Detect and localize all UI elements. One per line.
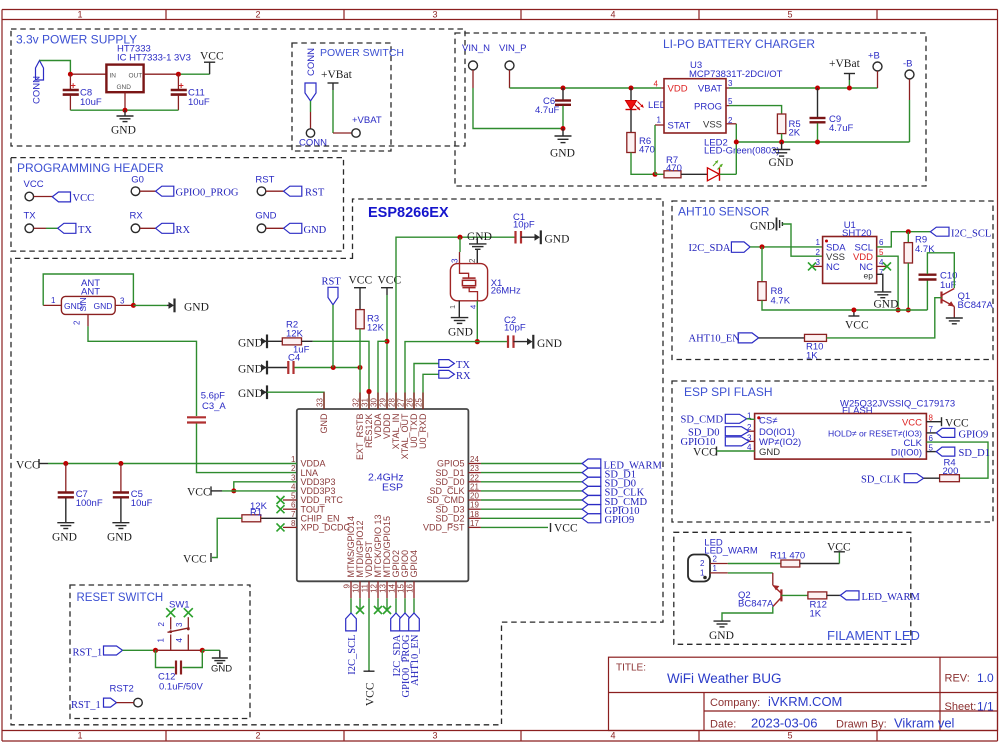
svg-text:13: 13: [379, 583, 388, 592]
ground symbol: [124, 110, 126, 116]
wire -B to gnd rail: [909, 79, 911, 100]
programming header block: [11, 158, 344, 252]
svg-text:RST: RST: [305, 188, 325, 199]
svg-text:U0_RXD: U0_RXD: [418, 413, 428, 449]
svg-text:4: 4: [654, 80, 659, 89]
svg-text:200: 200: [943, 466, 959, 477]
svg-text:GND: GND: [238, 364, 263, 376]
svg-text:DI(IO0): DI(IO0): [891, 447, 922, 458]
svg-text:STAT: STAT: [668, 121, 691, 132]
resistor R7 470: [664, 171, 681, 178]
ground symbol (C7): [57, 522, 74, 524]
net flag VCC: [52, 192, 70, 202]
capacitor C8 10uF: [69, 74, 71, 89]
pin circle CONN: [306, 129, 314, 137]
svg-text:3: 3: [728, 79, 733, 88]
wire SD_CLK to R4: [924, 477, 940, 479]
svg-text:WiFi Weather BUG: WiFi Weather BUG: [667, 671, 782, 686]
net flag I2C_SDA (down): [391, 613, 402, 631]
wire pin15 to GPIO0_PROG flag: [404, 598, 406, 613]
svg-text:12K: 12K: [286, 329, 304, 340]
svg-text:2: 2: [816, 248, 821, 257]
wire crystal pin4 to xtal_out: [476, 301, 478, 342]
wire pin19: [468, 508, 481, 510]
gnd side flag (C2): [527, 338, 533, 345]
svg-text:24: 24: [470, 455, 479, 464]
crystal X1 26MHz: [450, 264, 487, 301]
svg-text:POWER SWITCH: POWER SWITCH: [320, 47, 404, 59]
wire ep to gnd: [877, 274, 883, 292]
net flag AHT10_EN (down): [409, 613, 420, 631]
svg-text:ESP SPI FLASH: ESP SPI FLASH: [684, 385, 772, 399]
svg-text:Company:: Company:: [710, 697, 760, 709]
svg-text:GND: GND: [545, 234, 570, 246]
wire GND pin down: [124, 92, 126, 110]
node C9 top: [815, 86, 820, 91]
svg-text:VCC: VCC: [187, 487, 211, 499]
net flag I2C_SDA: [731, 242, 750, 252]
net flag GPIO10: [725, 437, 749, 446]
wire node to IN pin: [70, 73, 106, 75]
svg-text:VCC: VCC: [554, 523, 578, 535]
capacitor C3_A 5.6pF: [187, 416, 206, 418]
svg-text:4: 4: [469, 305, 478, 309]
wire branch to pin30: [378, 341, 387, 409]
wire R12 to LED_WARM flag: [827, 594, 841, 596]
capacitor C9 4.7uF: [817, 88, 819, 117]
no-connect U1 pin4: [877, 265, 887, 267]
wire pin25 to RX flag: [423, 374, 439, 409]
svg-text:10uF: 10uF: [80, 97, 102, 108]
svg-text:ESP: ESP: [382, 482, 403, 494]
right side pin wires and flags: [468, 459, 662, 535]
svg-text:1: 1: [77, 731, 82, 741]
power flag VCC (R1): [210, 553, 212, 562]
net flag TX: [58, 223, 76, 233]
resistor R10 1K: [805, 334, 827, 341]
svg-text:21: 21: [470, 482, 479, 491]
svg-text:3: 3: [816, 258, 821, 267]
svg-text:G0: G0: [131, 175, 144, 186]
svg-text:26: 26: [406, 398, 415, 407]
wire pin18: [468, 517, 481, 519]
wire I2C_SDA to pin1: [750, 246, 823, 248]
svg-text:CONN: CONN: [299, 138, 327, 149]
wire pin6 CLK to R4: [926, 442, 988, 478]
li-po battery charger block: [455, 33, 926, 186]
svg-text:32: 32: [352, 398, 361, 407]
resistor R12 1K: [808, 592, 827, 599]
svg-text:5: 5: [787, 10, 792, 20]
frame column ticks bottom: [165, 731, 167, 742]
node stat: [653, 172, 658, 177]
svg-text:VCC: VCC: [378, 275, 402, 287]
svg-text:6: 6: [879, 238, 884, 247]
no-connect pin6: [283, 508, 297, 510]
svg-text:7: 7: [291, 510, 296, 519]
right pin names: [423, 459, 465, 533]
svg-text:4: 4: [291, 482, 296, 491]
net flag RST: [284, 186, 302, 196]
svg-text:IN: IN: [110, 73, 117, 80]
wire R6 to stat rail: [631, 153, 655, 175]
svg-text:VCC: VCC: [693, 447, 717, 459]
wire crystal pin2 to gnd: [476, 249, 478, 263]
svg-text:4: 4: [610, 731, 615, 741]
wire Q2 base to R12: [781, 594, 808, 596]
right pin numbers: [470, 455, 479, 528]
svg-text:RX: RX: [176, 225, 191, 236]
3.3v power supply block: [11, 29, 465, 146]
svg-text:GND: GND: [238, 388, 263, 400]
svg-text:LED-Green(0803): LED-Green(0803): [704, 146, 780, 157]
wire STAT: [655, 124, 664, 126]
wire VIN_P to VDD: [509, 70, 511, 88]
net flag GPIO9: [582, 514, 601, 523]
svg-text:Drawn By:: Drawn By:: [836, 718, 887, 730]
power flag VCC (pin8): [926, 421, 941, 423]
svg-text:FILAMENT LED: FILAMENT LED: [827, 628, 920, 643]
ground rail wire: [70, 109, 178, 111]
svg-text:GND: GND: [304, 225, 327, 236]
esp block dashed border (L-shape): [11, 199, 663, 725]
net flag LED_WARM: [582, 459, 601, 468]
net flag SD_D1: [582, 468, 601, 477]
svg-text:LI-PO BATTERY CHARGER: LI-PO BATTERY CHARGER: [663, 37, 815, 51]
svg-text:6: 6: [291, 501, 296, 510]
ground symbol (ep): [874, 291, 891, 293]
net flag AHT10_EN: [738, 333, 758, 343]
svg-text:31: 31: [361, 398, 370, 407]
svg-text:470: 470: [639, 145, 655, 156]
svg-text:GND: GND: [709, 630, 734, 642]
svg-text:+: +: [179, 81, 184, 91]
capacitor C6 4.7uF: [562, 88, 564, 100]
gnd side flag (C1): [535, 234, 541, 241]
wire pin24: [468, 463, 481, 465]
svg-text:100nF: 100nF: [76, 498, 103, 509]
svg-text:AHT10 SENSOR: AHT10 SENSOR: [678, 205, 770, 219]
filament led block: [674, 532, 921, 644]
svg-text:15: 15: [397, 583, 406, 592]
bottom pin numbers: [343, 583, 415, 592]
svg-text:MCP73831T-2DCI/OT: MCP73831T-2DCI/OT: [689, 69, 783, 80]
svg-text:GND: GND: [750, 221, 775, 233]
wire SCL to I2C_SCL flag: [877, 232, 931, 247]
wire RST down to row B: [332, 305, 334, 368]
svg-text:5.6pF: 5.6pF: [201, 391, 225, 402]
top pin numbers: [316, 398, 424, 407]
svg-text:RESET SWITCH: RESET SWITCH: [77, 592, 164, 604]
wire LED2 to VSS branch: [720, 173, 737, 175]
no-connect pin5: [283, 499, 297, 501]
reset switch dashed border: [70, 585, 250, 719]
svg-text:3: 3: [432, 10, 437, 20]
esp8266ex block: [11, 199, 663, 725]
svg-text:XPD_DCDC: XPD_DCDC: [301, 523, 351, 533]
svg-text:1: 1: [448, 305, 457, 309]
svg-text:VDD: VDD: [668, 84, 688, 95]
svg-text:TX: TX: [78, 225, 92, 236]
wire pin16 to AHT10_EN flag: [413, 598, 415, 613]
wire Q2 emitter to gnd: [722, 607, 773, 622]
svg-text:SHT20: SHT20: [842, 228, 872, 239]
svg-text:C4: C4: [288, 353, 300, 364]
svg-text:1: 1: [157, 638, 166, 643]
svg-text:26MHz: 26MHz: [491, 286, 521, 297]
resistor R4 200: [940, 475, 960, 482]
svg-text:9: 9: [343, 583, 352, 588]
svg-text:2: 2: [713, 555, 718, 564]
svg-text:GND: GND: [52, 532, 77, 544]
title block: [609, 657, 998, 730]
svg-text:GND: GND: [759, 447, 780, 458]
sensor U1 SHT20: [823, 237, 877, 284]
svg-text:REV:: REV:: [945, 673, 970, 685]
svg-text:PROGRAMMING HEADER: PROGRAMMING HEADER: [17, 161, 164, 175]
wire VDD to vcc rail: [877, 256, 898, 310]
svg-text:1: 1: [291, 455, 296, 464]
wire R8 to vcc rail: [762, 300, 854, 310]
programming header dashed border: [11, 158, 344, 252]
LED (filament) component: [688, 555, 710, 582]
svg-text:AHT10_EN: AHT10_EN: [410, 634, 421, 686]
power flag VCC (rail): [853, 310, 855, 316]
svg-text:23: 23: [470, 464, 479, 473]
svg-text:GPIO9: GPIO9: [959, 429, 989, 440]
net flag GPIO0_PROG: [156, 186, 174, 196]
power flag VCC (R11): [834, 551, 845, 553]
wire gnd row C to pin33: [267, 392, 324, 409]
svg-text:33: 33: [316, 398, 325, 407]
wire LED1 to R6: [630, 110, 632, 133]
wire pin22: [468, 481, 481, 483]
svg-text:GND: GND: [874, 299, 899, 311]
net flag GPIO0_PROG (down): [400, 613, 411, 631]
svg-text:NC: NC: [826, 262, 840, 273]
wire ant pin2 down to C3_A: [87, 314, 89, 326]
svg-text:SD_CLK: SD_CLK: [861, 475, 901, 486]
svg-text:VCC: VCC: [73, 193, 95, 204]
svg-text:2: 2: [728, 116, 733, 125]
svg-text:2023-03-06: 2023-03-06: [751, 716, 818, 731]
ground symbol (vin): [562, 129, 564, 137]
svg-text:RST: RST: [255, 175, 274, 186]
svg-text:30: 30: [370, 398, 379, 407]
svg-text:1.0: 1.0: [977, 671, 994, 685]
svg-text:5: 5: [787, 731, 792, 741]
svg-text:AHT10_EN: AHT10_EN: [689, 334, 741, 345]
svg-text:VSS: VSS: [703, 120, 722, 131]
power switch block: [292, 43, 404, 151]
wire R3 to pin32: [359, 329, 361, 409]
node gnd rail R5: [779, 140, 784, 145]
net flag TX: [439, 360, 455, 368]
svg-text:17: 17: [470, 519, 479, 528]
svg-text:R1: R1: [250, 508, 262, 519]
no-connect pin8: [283, 526, 297, 528]
svg-text:CONN: CONN: [306, 48, 317, 76]
svg-text:C3_A: C3_A: [202, 401, 226, 412]
svg-text:GND: GND: [111, 125, 136, 137]
svg-text:+VBat: +VBat: [829, 58, 861, 70]
svg-text:1: 1: [51, 296, 56, 305]
svg-text:RST2: RST2: [110, 684, 134, 695]
svg-text:10uF: 10uF: [131, 498, 153, 509]
net flag GPIO10: [582, 505, 601, 514]
svg-text:GND: GND: [537, 338, 562, 350]
svg-text:4: 4: [610, 10, 615, 20]
ESP8266 IC body: [297, 409, 469, 581]
svg-text:ANT: ANT: [81, 287, 100, 298]
esp spi flash block: [672, 381, 993, 522]
svg-text:VDD_PST: VDD_PST: [423, 523, 465, 533]
wire GPIO10 to pin3: [749, 440, 755, 442]
resistor R6 470: [627, 133, 635, 153]
title block outline: [609, 657, 998, 730]
svg-text:Date:: Date:: [710, 718, 736, 730]
LED2 LED-Green(0803): [707, 168, 719, 181]
svg-text:PROG: PROG: [694, 101, 722, 112]
wire to gnd: [202, 649, 220, 651]
wire pin9 to I2C_SCL flag: [350, 598, 352, 613]
svg-text:VCC: VCC: [845, 320, 869, 332]
svg-text:SW1: SW1: [169, 600, 190, 611]
ground symbol (Q1): [946, 317, 963, 319]
svg-text:5: 5: [291, 492, 296, 501]
svg-text:CS≠: CS≠: [759, 415, 777, 426]
svg-text:1K: 1K: [806, 351, 818, 362]
svg-text:10uF: 10uF: [188, 97, 210, 108]
resistor R3 12K: [356, 310, 364, 329]
svg-text:Vikram vel: Vikram vel: [894, 716, 955, 731]
svg-text:RX: RX: [456, 371, 471, 382]
svg-text:SD_D1: SD_D1: [959, 448, 991, 459]
ground symbol (crystal bottom): [451, 317, 469, 319]
capacitor C5 10uF: [120, 464, 122, 492]
wire C3_A to LNA: [197, 424, 297, 473]
wire VIN_N to gnd rail: [472, 70, 474, 88]
top pin names: [319, 413, 428, 460]
svg-text:VIN_P: VIN_P: [499, 43, 526, 54]
gnd side flag (ant): [167, 304, 173, 306]
ground symbol (charger): [781, 142, 783, 150]
psu block dashed border: [11, 29, 465, 146]
net flag LED_WARM (filament): [840, 591, 859, 600]
svg-text:2: 2: [700, 559, 705, 568]
svg-text:5: 5: [728, 97, 733, 106]
svg-text:GND: GND: [319, 413, 329, 434]
wire R1 to VCC: [212, 518, 242, 557]
svg-text:0.1uF/50V: 0.1uF/50V: [159, 682, 203, 693]
svg-text:2: 2: [255, 10, 260, 20]
svg-text:VCC: VCC: [945, 418, 969, 430]
svg-text:GND: GND: [467, 231, 492, 243]
svg-text:8: 8: [291, 519, 296, 528]
node at C11 top: [176, 72, 181, 77]
wire VBAT: [726, 87, 729, 89]
svg-text:IC HT7333-1 3V3: IC HT7333-1 3V3: [117, 53, 191, 64]
svg-text:470: 470: [666, 163, 682, 174]
svg-text:4.7uF: 4.7uF: [535, 105, 559, 116]
svg-text:4.7K: 4.7K: [771, 296, 791, 307]
wire C10 to Q1 collector: [927, 253, 954, 288]
svg-text:CONN: CONN: [32, 76, 43, 104]
svg-text:TITLE:: TITLE:: [616, 663, 646, 674]
resistor R8 4.7K: [761, 247, 763, 282]
ground symbol (C5): [112, 522, 129, 524]
net flag SD_CMD: [725, 414, 746, 423]
wire pin11 to VCC: [368, 598, 370, 670]
bottom pin names: [346, 514, 419, 577]
svg-text:+VBat: +VBat: [321, 69, 353, 81]
svg-text:3: 3: [120, 297, 125, 306]
node LED1 top: [629, 86, 634, 91]
wire conn to pin circle: [310, 101, 312, 112]
node at C8 top: [68, 72, 73, 77]
flash IC W25Q32JVSSIQ: [755, 414, 927, 460]
node C6 bottom: [561, 126, 566, 131]
wire RST_1 to switch: [123, 649, 156, 651]
svg-text:I2C_SCL: I2C_SCL: [951, 229, 991, 240]
wire pin28 XTAL_IN to crystal: [396, 237, 515, 409]
svg-text:+B: +B: [868, 51, 880, 62]
wire pin20: [468, 499, 481, 501]
svg-text:1: 1: [77, 10, 82, 20]
svg-text:VCC: VCC: [902, 418, 922, 429]
flash dashed border: [672, 381, 993, 522]
no-connect U1 pin3: [812, 265, 823, 267]
svg-text:GPIO9: GPIO9: [605, 515, 635, 526]
capacitor C7 100nF: [65, 464, 67, 492]
wire OUT to VCC: [144, 73, 179, 75]
no-connect pin12: [377, 598, 379, 610]
svg-text:GND: GND: [117, 84, 132, 91]
svg-text:3: 3: [291, 473, 296, 482]
svg-text:iVKRM.COM: iVKRM.COM: [768, 694, 842, 709]
svg-text:VCC: VCC: [16, 460, 40, 472]
wire LED pin2 to R11: [710, 563, 728, 565]
net flag SD_CLK: [904, 474, 923, 483]
wire R9 to vcc rail: [907, 263, 909, 310]
svg-text:ep: ep: [864, 271, 874, 281]
svg-text:22: 22: [470, 473, 479, 482]
svg-text:GPIO4: GPIO4: [409, 550, 419, 578]
svg-text:LED_WARM: LED_WARM: [862, 592, 921, 603]
svg-text:2: 2: [468, 258, 477, 263]
wire ant pin3 to gnd: [133, 304, 167, 306]
capacitor C10 1uF: [926, 281, 928, 311]
svg-text:12: 12: [370, 583, 379, 592]
wire pin17 to VCC: [468, 526, 481, 528]
transistor Q2 BC847A: [780, 589, 782, 601]
svg-text:1K: 1K: [810, 609, 822, 620]
svg-text:GND: GND: [550, 148, 575, 160]
resistor R9 4.7K: [907, 232, 909, 243]
no-connect pin13: [386, 598, 388, 610]
net flag SD_D0: [582, 477, 601, 486]
wire pin3 to vcc node: [234, 482, 297, 491]
svg-text:TX: TX: [456, 360, 470, 371]
aht10 sensor block: [672, 201, 994, 362]
wire C4 to pin32 line: [295, 367, 361, 369]
wire Q1 emitter to gnd: [953, 307, 955, 319]
svg-text:RST: RST: [322, 277, 342, 288]
svg-text:11: 11: [361, 583, 370, 592]
svg-text:VCC: VCC: [827, 542, 851, 554]
svg-text:19: 19: [470, 501, 479, 510]
svg-text:HOLD≠ or RESET≠(IO3): HOLD≠ or RESET≠(IO3): [828, 428, 922, 438]
